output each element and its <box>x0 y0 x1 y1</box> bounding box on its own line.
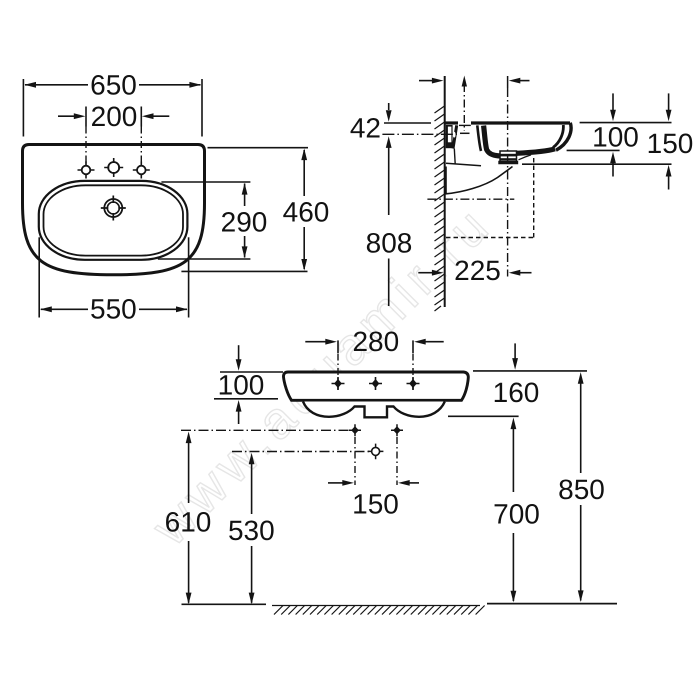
shroud end line <box>519 155 532 160</box>
wall fixing marks <box>349 424 403 436</box>
front tap hole marks <box>332 377 420 390</box>
watermark www.aquamir.ru <box>141 195 504 558</box>
svg-text:290: 290 <box>221 207 268 238</box>
rim top extension right <box>580 122 672 124</box>
dim 160 extensions <box>473 370 587 372</box>
dim 280 ticks <box>337 340 339 353</box>
svg-text:100: 100 <box>592 122 639 153</box>
dim 460 extension top <box>208 147 309 149</box>
underside line <box>446 163 481 166</box>
dim 460 line and arrows <box>303 150 305 196</box>
dim 100 extensions <box>220 371 283 373</box>
dim 808 top arrow (up to 42 line) <box>386 136 392 148</box>
dim 150 bottom extension <box>522 163 672 165</box>
tap hole centerline right <box>140 127 142 164</box>
dim 225 top arrows <box>419 80 433 82</box>
tap boss right edge <box>477 125 481 151</box>
pedestal back edge <box>453 149 456 165</box>
dim 150 arrows <box>668 93 670 111</box>
svg-text:850: 850 <box>558 474 605 505</box>
center hole mark <box>368 444 384 460</box>
floor line left <box>182 603 267 605</box>
dim 160 arrows <box>514 343 516 359</box>
drain centerline <box>507 76 509 88</box>
front apron scallop <box>303 402 445 418</box>
tap hole left <box>78 162 95 179</box>
dim 200 arrows outside <box>58 115 75 117</box>
svg-text:700: 700 <box>493 499 540 530</box>
svg-text:150: 150 <box>352 489 399 520</box>
dim 42 top arrow <box>388 103 390 110</box>
wall line <box>444 76 446 307</box>
dim 150 arrows front <box>328 482 343 484</box>
svg-text:200: 200 <box>91 101 138 132</box>
svg-text:280: 280 <box>352 326 399 357</box>
side right rim outer <box>556 123 571 150</box>
svg-text:42: 42 <box>350 113 381 144</box>
svg-text:808: 808 <box>366 228 413 259</box>
dim 100 bottom extension <box>567 149 620 151</box>
dim 100 arrows <box>238 345 240 360</box>
svg-text:650: 650 <box>90 70 137 101</box>
shroud outline <box>446 167 513 194</box>
rim top extension left <box>384 122 431 124</box>
lower fixing centerline <box>427 198 514 200</box>
plan bowl rim inner <box>44 185 184 255</box>
fixing height line 610 <box>181 429 357 431</box>
plan basin outline <box>23 145 205 275</box>
fixing height centerline 42 <box>382 133 457 135</box>
dim 700 lower line <box>512 533 514 601</box>
drain hole <box>101 196 126 221</box>
tap hole notch <box>459 124 471 126</box>
bowl back band <box>484 126 555 156</box>
side rim top line <box>446 121 459 124</box>
hidden trap space vertical <box>533 158 535 238</box>
svg-text:150: 150 <box>647 128 694 159</box>
svg-text:530: 530 <box>228 515 275 546</box>
drain trap block <box>498 151 518 164</box>
fixing hole oval <box>453 132 456 138</box>
tap hole centerline left <box>85 127 87 164</box>
dim 290 extension top <box>161 181 250 183</box>
centerline 280 left <box>337 354 339 390</box>
dim 700 top arrow (shared with 160 bottom) <box>511 418 517 430</box>
dim 225 bottom arrows <box>418 272 432 274</box>
dim 650 line and arrows <box>25 84 88 86</box>
dim 460 extension bottom <box>181 270 307 272</box>
dim 550 extension lines <box>38 237 40 317</box>
tap hole cross tick <box>460 132 470 134</box>
floor hatched strip <box>272 605 480 607</box>
tap boss left edge <box>453 125 457 148</box>
svg-text:610: 610 <box>165 507 212 538</box>
dim 610 line <box>186 432 192 444</box>
dim 808 lower line (broken) <box>388 259 390 307</box>
fixing centerline left vertical <box>354 437 356 485</box>
svg-text:225: 225 <box>454 255 501 286</box>
tap hole right <box>133 162 150 179</box>
hidden trap space horizontal <box>446 237 534 239</box>
centerline 280 right <box>412 354 414 390</box>
fixing centerline right vertical <box>396 437 398 485</box>
fixing slot <box>448 127 452 143</box>
front basin outline <box>283 372 468 400</box>
dim 550 line and arrows <box>41 308 88 310</box>
dim 200 extension ticks <box>85 107 87 127</box>
plan bowl rim outer <box>39 181 188 260</box>
side right rim inner <box>553 125 563 148</box>
tap centerline arrow <box>462 76 467 87</box>
wall hatching <box>435 106 445 311</box>
floor line right <box>487 603 617 605</box>
back mounting band <box>446 125 453 148</box>
dim 100 arrows <box>612 93 614 111</box>
dim 650 extension lines <box>22 79 24 137</box>
tap hole middle <box>104 158 123 177</box>
dim 530 line <box>249 453 255 465</box>
dim 290 line and arrows <box>244 184 246 207</box>
dim 280 arrows <box>305 341 326 343</box>
svg-text:460: 460 <box>283 197 330 228</box>
svg-text:550: 550 <box>90 294 137 325</box>
dim 850 line <box>578 372 584 384</box>
dim 290 extension bottom <box>158 258 251 260</box>
svg-text:160: 160 <box>493 377 540 408</box>
svg-text:100: 100 <box>218 370 265 401</box>
fixing height line 530 <box>232 451 369 453</box>
floor hatch strokes <box>274 606 485 615</box>
